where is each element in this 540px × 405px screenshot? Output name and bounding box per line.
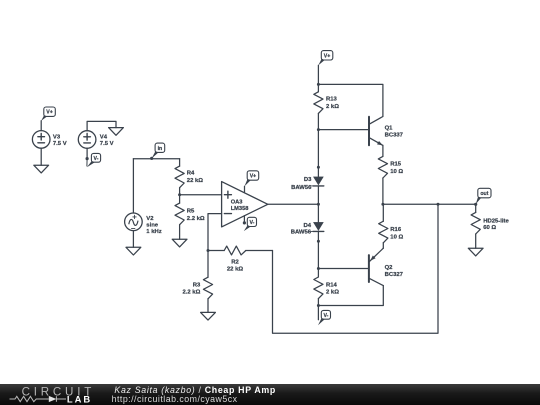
node junction (381, 203, 384, 206)
label D4 (291, 223, 312, 236)
label V2 (146, 216, 161, 235)
node junction (317, 267, 320, 270)
ground (126, 247, 141, 255)
svg-text:LM358: LM358 (231, 206, 249, 212)
label R16 (390, 227, 403, 240)
resistor R4 (175, 159, 184, 195)
label R2 (227, 259, 243, 272)
svg-text:2.2 kΩ: 2.2 kΩ (187, 216, 205, 222)
net flag V- (bottom) (318, 310, 331, 325)
op-amp + input symbol (224, 191, 231, 198)
wire (86, 148, 88, 158)
svg-text:R15: R15 (390, 162, 402, 168)
wire (317, 204, 319, 222)
wire (132, 231, 134, 248)
svg-text:D4: D4 (303, 223, 311, 229)
label R5 (187, 209, 205, 222)
svg-text:sine: sine (146, 223, 159, 229)
wire to Q1 collector (318, 84, 383, 116)
svg-text:1 kHz: 1 kHz (146, 229, 161, 235)
node junction (317, 83, 320, 86)
svg-text:BC337: BC337 (385, 133, 404, 139)
svg-text:V3: V3 (53, 135, 61, 141)
net flag V+ (at V3) (41, 107, 55, 121)
label R13 (326, 97, 339, 110)
svg-text:10 Ω: 10 Ω (390, 169, 403, 175)
wire node in (133, 158, 179, 160)
label V3 (53, 135, 67, 147)
resistor R15 (378, 156, 387, 204)
op-amp OA1 triangle (222, 182, 268, 227)
svg-text:R14: R14 (326, 283, 338, 289)
label V4 (100, 135, 114, 147)
label OA3 (231, 200, 249, 212)
svg-text:R2: R2 (231, 259, 239, 265)
net flag V- (at V4) (86, 153, 101, 167)
transistor Q2 collector (369, 278, 383, 285)
voltage source V3 (32, 131, 50, 149)
svg-text:7.5 V: 7.5 V (53, 141, 67, 147)
resistor R2 (208, 246, 273, 255)
resistor R13 (314, 84, 323, 129)
svg-text:60 Ω: 60 Ω (483, 225, 496, 231)
net flag out (474, 188, 491, 206)
ground (34, 165, 49, 173)
wire (317, 241, 319, 268)
svg-text:7.5 V: 7.5 V (100, 141, 114, 147)
svg-text:R13: R13 (326, 97, 338, 103)
svg-text:2 kΩ: 2 kΩ (326, 290, 339, 296)
node junction (317, 128, 320, 131)
svg-text:Q2: Q2 (385, 265, 394, 271)
wire (40, 148, 42, 165)
wire to Q1 base (318, 129, 369, 131)
node junction (317, 304, 320, 307)
node junction (178, 193, 181, 196)
node junction (317, 166, 320, 169)
wire (317, 130, 319, 168)
svg-text:http://circuitlab.com/cyaw5cx: http://circuitlab.com/cyaw5cx (112, 394, 238, 404)
wire (180, 194, 222, 196)
svg-text:V+: V+ (46, 110, 53, 116)
label R3 (182, 282, 201, 295)
transistor Q1 base bar (368, 117, 370, 146)
label Q2 (385, 265, 404, 278)
wire op-amp output (268, 203, 319, 205)
svg-text:V+: V+ (250, 174, 257, 180)
transistor Q1 emitter (369, 138, 383, 146)
label Q1 (385, 126, 404, 139)
svg-text:out: out (480, 191, 488, 197)
svg-text:V-: V- (323, 313, 328, 319)
svg-text:R4: R4 (187, 171, 195, 177)
svg-text:Q1: Q1 (385, 126, 394, 132)
node junction (317, 203, 320, 206)
svg-text:V-: V- (249, 220, 254, 226)
resistor R3 (203, 251, 212, 313)
net flag V+ (top) (318, 51, 332, 66)
ground (201, 312, 216, 320)
ground (172, 239, 187, 247)
net flag V+ (op-amp) (245, 171, 259, 186)
svg-text:D3: D3 (304, 177, 312, 183)
wire (40, 121, 42, 131)
resistor R16 (379, 204, 388, 248)
label HD25-lite (483, 218, 509, 231)
wire (317, 65, 319, 84)
wire op-amp minus input (208, 214, 222, 251)
svg-text:R16: R16 (390, 227, 402, 233)
node junction (317, 240, 320, 243)
svg-text:22 kΩ: 22 kΩ (187, 178, 203, 184)
svg-text:in: in (158, 146, 163, 152)
resistor HD25-lite (471, 204, 480, 248)
diode D3 (311, 167, 324, 204)
label R15 (390, 162, 403, 175)
CircuitLab logo resistor-diode squiggle (10, 396, 67, 402)
svg-text:V4: V4 (100, 135, 108, 141)
ground (109, 128, 124, 136)
footer bar (0, 384, 540, 405)
transistor Q2 base bar (368, 255, 370, 282)
svg-text:BAW56: BAW56 (291, 185, 312, 191)
svg-text:10 Ω: 10 Ω (390, 234, 403, 240)
wire (132, 159, 134, 213)
svg-text:HD25-lite: HD25-lite (483, 218, 509, 224)
wire (318, 286, 383, 306)
svg-text:V2: V2 (146, 216, 154, 222)
op-amp V- pin (243, 216, 246, 225)
op-amp V+ pin (244, 186, 246, 192)
node junction (437, 203, 440, 206)
wire to Q2 base (318, 268, 369, 270)
op-amp - input symbol (224, 213, 231, 215)
svg-text:V-: V- (94, 156, 99, 162)
ground (468, 248, 483, 256)
svg-text:2.2 kΩ: 2.2 kΩ (182, 290, 200, 296)
wire (317, 306, 319, 320)
svg-text:OA3: OA3 (231, 200, 243, 206)
svg-text:2 kΩ: 2 kΩ (326, 104, 339, 110)
voltage source V2 (sine) (125, 213, 143, 231)
diode D4 (311, 222, 324, 241)
svg-text:BAW56: BAW56 (291, 230, 312, 236)
net flag in (150, 143, 165, 160)
wire (87, 121, 116, 130)
svg-text:BC327: BC327 (385, 272, 404, 278)
resistor R14 (314, 269, 323, 306)
svg-text:V+: V+ (324, 53, 331, 59)
svg-text:LAB: LAB (67, 394, 92, 405)
label D3 (291, 177, 312, 191)
resistor R5 (175, 195, 184, 240)
wire feedback (273, 204, 439, 333)
svg-text:R3: R3 (193, 282, 201, 288)
voltage source V4 (78, 131, 96, 149)
node junction (207, 249, 210, 252)
transistor Q2 emitter (369, 248, 383, 262)
label R4 (187, 171, 203, 184)
svg-text:22 kΩ: 22 kΩ (227, 267, 243, 273)
svg-text:R5: R5 (187, 209, 195, 215)
net flag V- (op-amp) (244, 217, 257, 231)
wire (382, 145, 384, 156)
wire output (383, 203, 476, 205)
transistor Q1 collector (369, 117, 383, 125)
label R14 (326, 283, 339, 296)
